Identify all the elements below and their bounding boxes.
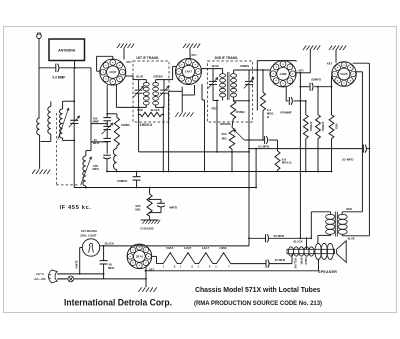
antenna box: [49, 39, 85, 61]
capacitor C8 .05MFD coupling: [300, 86, 309, 88]
svg-text:.01 MFD.: .01 MFD.: [258, 145, 271, 149]
svg-text:BLUE: BLUE: [348, 237, 355, 241]
svg-text:470MMF: 470MMF: [280, 111, 292, 115]
node L5 to bus: [116, 171, 118, 173]
arrow C1 trimmer: [69, 116, 80, 127]
svg-text:KEY: KEY: [327, 62, 333, 66]
wire B-plus drop to rectifier: [248, 101, 250, 246]
wire 14B6 shield loop: [256, 61, 258, 111]
svg-text:20 MFD: 20 MFD: [274, 234, 286, 238]
ground above 50A5: [329, 46, 332, 51]
svg-text:35Y4: 35Y4: [136, 255, 143, 259]
wire screen to IF primary red: [116, 106, 146, 108]
capacitor C14 40MFD: [265, 260, 267, 268]
wire 14A7 screen drop: [201, 84, 203, 100]
capacitor C2 100MMF: [106, 114, 108, 118]
lamp dial light: [82, 239, 99, 256]
wire T1 red drop: [138, 107, 140, 151]
tube V4 50A5 output: [332, 62, 357, 87]
svg-text:#47 MAZDA: #47 MAZDA: [81, 229, 98, 233]
coil T1 secondary: [155, 80, 157, 83]
svg-text:MEG.Ω: MEG.Ω: [282, 161, 292, 165]
node cap tap: [103, 245, 105, 247]
node volume to B-minus: [231, 171, 233, 173]
node grid crossing: [256, 69, 258, 71]
resistor R6 6.8MEG: [277, 140, 279, 151]
svg-text:BROWN: BROWN: [220, 122, 230, 126]
wire field coil riser: [306, 238, 308, 249]
transformer T3 output core: [334, 212, 336, 237]
resistor R8 470M: [317, 87, 319, 115]
wire T1 black vertical: [162, 107, 164, 171]
svg-text:GREEN: GREEN: [153, 75, 162, 79]
resistor R9 90 ohm: [331, 76, 333, 115]
coil T2 primary: [222, 69, 224, 74]
coil L1 loop antenna: [37, 118, 40, 135]
wire dial right lead: [100, 245, 147, 247]
svg-text:14A7: 14A7: [202, 246, 210, 250]
capacitor C3 oscillator padder variable: [103, 125, 111, 127]
svg-text:MΩ: MΩ: [222, 137, 227, 141]
arrow T2 secondary trimmer: [244, 78, 254, 89]
svg-text:14Q7: 14Q7: [184, 246, 192, 250]
arrow L3 variable slug: [58, 108, 69, 139]
wire 35Y4 plate line: [146, 245, 249, 247]
svg-text:470MΩ.: 470MΩ.: [309, 121, 313, 131]
svg-text:117 V.: 117 V.: [36, 272, 44, 276]
svg-text:3.3 MMF: 3.3 MMF: [52, 76, 65, 80]
wire 14Q7 screen lead: [115, 85, 117, 108]
svg-text:KEY: KEY: [299, 68, 305, 72]
svg-text:MΩ.: MΩ.: [135, 207, 141, 211]
coil T1 primary: [145, 80, 147, 83]
resistor R10 220 ohm: [149, 188, 151, 195]
wire osc tap lower: [91, 141, 107, 143]
wire T3 secondary top: [311, 211, 330, 213]
svg-text:BLUE: BLUE: [212, 64, 219, 68]
wire L3 top bracket: [63, 100, 75, 102]
wire diode return: [299, 73, 301, 238]
wire ground lead 50A5: [335, 50, 337, 63]
svg-text:MMF: MMF: [93, 120, 100, 124]
wire antenna input line: [39, 67, 55, 69]
svg-text:.05MFD: .05MFD: [117, 179, 129, 183]
tube V2 14A7 IF amplifier: [176, 59, 202, 85]
chassis ground: [141, 219, 159, 221]
svg-text:50A5: 50A5: [166, 246, 174, 250]
arrow T2 primary trimmer: [208, 78, 218, 89]
wire B-minus bus left: [74, 187, 256, 189]
svg-text:MFD: MFD: [93, 141, 99, 145]
wire AVC bus: [139, 151, 249, 153]
svg-text:14A7: 14A7: [185, 70, 193, 74]
capacitor C4 .01MFD: [103, 137, 111, 139]
wire 14Q7 plate to T1: [125, 75, 133, 77]
coil T3 primary: [341, 212, 343, 215]
wire L1 to ground: [39, 135, 41, 169]
svg-text:Chassis Model 571X with Loctal: Chassis Model 571X with Loctal Tubes: [195, 285, 321, 294]
wire dial left lead: [80, 247, 83, 249]
capacitor C6 audio coupling .01: [264, 136, 266, 144]
wire bottom return: [145, 270, 319, 272]
tube V3 14B6 det-avc-af: [270, 61, 296, 87]
wire T1 secondary top to 14A7 grid: [156, 79, 173, 81]
wire loop antenna left lead: [38, 68, 40, 118]
heater string zigzag: [157, 253, 231, 264]
wire T2 red drop: [216, 101, 218, 152]
svg-text:14Q7: 14Q7: [109, 70, 117, 74]
wire heater to field: [231, 263, 266, 265]
coil L3 RF tuned winding: [62, 101, 64, 109]
svg-text:470MΩ.: 470MΩ.: [321, 121, 325, 131]
arrow R4 wiper: [234, 130, 245, 140]
resistor R5 3.3MEG grid leak: [262, 70, 264, 93]
tube V5 35Y4 rectifier: [127, 244, 152, 269]
wire AC bottom line: [66, 278, 68, 280]
node tuning rail bottom: [73, 140, 75, 142]
wire 14Q7 grid loop: [96, 56, 98, 71]
svg-text:90Ω.: 90Ω.: [335, 123, 339, 129]
plug 117V AC-DC: [49, 270, 58, 283]
node cathode junction: [106, 113, 108, 115]
svg-text:YELLOW: YELLOW: [293, 258, 296, 269]
wire rail inner: [361, 72, 363, 212]
arrow T1 secondary trimmer: [159, 86, 169, 97]
capacitor T1 primary trimmer: [138, 80, 140, 91]
svg-text:15000 Ω: 15000 Ω: [140, 123, 153, 127]
antenna symbol: [37, 34, 42, 39]
coil T2 secondary: [233, 70, 235, 74]
ground below 14A7: [175, 112, 178, 117]
arrow C3 trimmer: [101, 123, 112, 134]
arrow T1 primary trimmer: [134, 86, 144, 97]
capacitor C11 .05MFD: [136, 172, 138, 177]
svg-text:SPKR: SPKR: [300, 258, 303, 265]
wire AC top line: [66, 273, 104, 275]
wire T1 black return: [156, 106, 164, 108]
wire B-plus branch: [255, 149, 257, 188]
arrow L4 variable slug: [81, 157, 92, 185]
ground under loop antenna: [32, 170, 35, 175]
wire 14A7 cathode to B-minus: [169, 90, 183, 92]
capacitor C9 .02MFD: [362, 145, 364, 153]
svg-text:50A5: 50A5: [340, 72, 348, 76]
svg-text:CHASSIS: CHASSIS: [140, 227, 153, 231]
svg-text:WHITE: WHITE: [76, 260, 79, 268]
capacitor 3.3MMF: [55, 64, 57, 72]
capacitor C7 470MMF IF filter: [285, 87, 287, 101]
coil L2 antenna secondary: [50, 102, 52, 107]
svg-text:500: 500: [221, 132, 226, 136]
node avc junctions: [216, 151, 218, 153]
capacitor C1 tuning gang RF section: [70, 119, 78, 121]
resistor R2 15000 ohm: [141, 112, 162, 117]
wire T3 primary top: [342, 211, 362, 213]
wire antenna lead down: [38, 39, 40, 68]
transformer T2 2nd IF shield box: [208, 61, 253, 122]
svg-text:SPEAKER: SPEAKER: [318, 270, 337, 274]
svg-text:4MFD: 4MFD: [169, 206, 178, 210]
wire heater jog: [152, 255, 157, 257]
transformer T1 1st IF shield box: [133, 61, 169, 122]
ground below 35Y4: [139, 287, 142, 292]
wire 14B6 diode key: [296, 72, 310, 74]
capacitor C12 4MFD bypass: [150, 198, 161, 200]
wire T2 secondary bottom: [234, 100, 249, 102]
wire T3 secondary bottom: [318, 234, 331, 236]
transformer T2 core: [226, 72, 228, 100]
coil L7 voice coil: [315, 243, 322, 259]
svg-text:BLACK: BLACK: [105, 242, 114, 246]
wire gang link dashed: [56, 113, 58, 185]
node osc coil to bus: [85, 187, 87, 189]
svg-text:IF 455 kc.: IF 455 kc.: [60, 205, 92, 211]
coil L5 oscillator feedback: [113, 148, 116, 169]
svg-text:.05MFD: .05MFD: [311, 78, 323, 82]
svg-text:22MΩ.: 22MΩ.: [121, 123, 130, 127]
svg-text:MFD: MFD: [93, 167, 99, 171]
svg-text:.02 MFD: .02 MFD: [342, 158, 355, 162]
wire osc tap upper: [91, 123, 107, 125]
svg-text:BLUE: BLUE: [136, 75, 143, 79]
wire 14Q7 cathode lead: [106, 85, 108, 114]
svg-text:470MΩ.: 470MΩ.: [236, 110, 246, 114]
resistor R1 22M ohm: [116, 114, 118, 118]
capacitor T2 primary trimmer: [212, 69, 214, 82]
svg-text:KEY: KEY: [127, 60, 133, 64]
svg-text:FIELD: FIELD: [304, 257, 307, 264]
svg-text:RED: RED: [212, 107, 218, 111]
wire ground lead 14Q7: [123, 48, 125, 60]
wire 20MFD line: [249, 237, 266, 239]
svg-text:14B6: 14B6: [219, 246, 227, 250]
wire T2 primary bottom: [213, 100, 219, 102]
wire ground lead 14A7: [189, 48, 191, 59]
node C5 to bus: [106, 171, 108, 173]
node tuning rail top: [73, 100, 75, 102]
capacitor C5 .005MFD: [103, 154, 111, 156]
wire B-minus bus main: [107, 171, 332, 173]
svg-text:International Detrola Corp.: International Detrola Corp.: [64, 298, 172, 308]
svg-text:BLACK: BLACK: [151, 108, 160, 112]
svg-text:BLACK: BLACK: [294, 240, 303, 244]
fuse interlock: [68, 276, 74, 282]
wire 14A7 plate to T2: [201, 68, 222, 70]
capacitor C13 line .05MFD: [103, 246, 105, 261]
wire cathode node bar: [107, 113, 117, 115]
coil T3 secondary: [330, 212, 332, 215]
svg-text:40 MFD: 40 MFD: [275, 258, 287, 262]
svg-text:(RMA PRODUCTION SOURCE CODE No: (RMA PRODUCTION SOURCE CODE No. 213): [194, 300, 322, 307]
speaker cone: [336, 249, 338, 253]
tube V1 14Q7 converter: [100, 59, 126, 85]
node red-avc: [138, 107, 140, 109]
wire B-plus bus: [249, 148, 362, 150]
svg-text:MFD: MFD: [108, 266, 114, 270]
resistor R3 diode load 50M: [231, 101, 236, 119]
svg-text:RED: RED: [346, 207, 352, 211]
wire 50A5 screen to rail: [353, 62, 370, 64]
wire 14B6 grid line: [234, 69, 270, 71]
ground above 14Q7: [117, 44, 120, 49]
wire T3 primary bottom: [342, 235, 369, 237]
svg-text:1ST IF TRANS.: 1ST IF TRANS.: [136, 56, 159, 60]
ground above 14B6: [303, 46, 306, 51]
wire antenna box lead: [74, 61, 76, 68]
svg-text:DIAL LIGHT: DIAL LIGHT: [81, 234, 97, 238]
ground above 14A7: [183, 44, 186, 49]
svg-text:ANTENNA: ANTENNA: [58, 49, 76, 53]
coil L4 oscillator: [85, 151, 87, 156]
coil L6 speaker field: [287, 249, 335, 253]
svg-text:GREEN: GREEN: [240, 64, 249, 68]
wire rect cathode down: [145, 267, 147, 287]
node antenna input junction: [74, 67, 76, 69]
wire osc grid vertical: [90, 68, 92, 151]
wire tuning rail lower: [73, 123, 75, 187]
resistor R4 volume control 500M: [229, 128, 235, 150]
svg-text:14B6: 14B6: [279, 72, 287, 76]
capacitor C10 20MFD: [265, 234, 267, 242]
wire 50A5 plate to rail: [355, 71, 362, 73]
wire L3 bottom bracket: [63, 139, 75, 141]
capacitor T1 secondary trimmer: [163, 80, 165, 91]
svg-text:AC—DC: AC—DC: [34, 277, 46, 281]
wire tuning rail upper: [73, 68, 75, 121]
wire rail outer: [368, 63, 370, 236]
svg-text:KEY: KEY: [192, 53, 198, 57]
node black join: [162, 107, 164, 109]
capacitor T2 secondary trimmer: [248, 70, 250, 81]
svg-text:2ND IF TRANS.: 2ND IF TRANS.: [215, 56, 239, 60]
wire ground lead 14B6 region: [309, 50, 311, 73]
wire 14A7 cathode lead: [181, 87, 183, 112]
resistor R7 470M: [305, 101, 307, 115]
